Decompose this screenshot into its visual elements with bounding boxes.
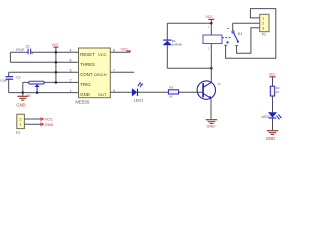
svg-text:VCC: VCC <box>269 73 277 77</box>
wire emitter down <box>210 99 212 120</box>
svg-text:LED1: LED1 <box>134 98 144 103</box>
wire r2 to led2 <box>272 96 274 112</box>
svg-text:+: + <box>32 52 34 56</box>
node junction vcc top <box>210 22 213 25</box>
op: IC U1 NE555 <box>75 48 110 105</box>
ground below LED2 <box>266 131 278 141</box>
svg-text:100uF: 100uF <box>16 48 25 52</box>
node junction vcc-cont <box>55 71 58 74</box>
capacitor C2 <box>0 72 20 92</box>
relay switch K1 <box>222 23 242 45</box>
svg-text:P1: P1 <box>262 33 266 37</box>
svg-text:C2: C2 <box>16 76 20 80</box>
power flag GND at P2 <box>41 122 54 127</box>
wire cont row (pin 5) <box>9 71 79 73</box>
svg-text:CONT: CONT <box>80 72 93 77</box>
svg-text:GND: GND <box>266 136 275 141</box>
svg-text:6: 6 <box>70 59 72 63</box>
resistor R3 <box>168 86 178 99</box>
node junction vcc-thres <box>55 61 58 64</box>
LED LED2 <box>262 112 282 119</box>
transistor Q1 <box>197 81 221 99</box>
svg-text:VCC: VCC <box>52 43 60 47</box>
svg-text:TRIG: TRIG <box>80 82 91 87</box>
connector P1 <box>260 14 269 36</box>
svg-text:GND: GND <box>45 122 54 127</box>
wire reset row (pin 4) <box>10 51 78 53</box>
node junction vcc-reset <box>55 51 58 54</box>
resistor R2 <box>270 86 280 96</box>
ground left <box>16 93 28 108</box>
LED LED1 <box>132 82 143 102</box>
svg-text:P2: P2 <box>16 131 20 135</box>
wire top loop <box>167 22 211 24</box>
diode D1 1N4148 <box>163 23 183 68</box>
svg-text:LED2: LED2 <box>262 115 270 119</box>
node junction wiper gnd <box>36 91 39 94</box>
svg-text:GND: GND <box>207 125 216 129</box>
power VCC right <box>269 73 277 87</box>
svg-text:1: 1 <box>70 89 72 93</box>
ground below Q1 <box>206 120 218 129</box>
wire thres row (pin 6) <box>10 61 78 63</box>
svg-text:OUT: OUT <box>98 92 107 97</box>
power VCC at pin 8 <box>121 47 131 52</box>
wire no contact loop <box>237 28 260 54</box>
svg-text:R3: R3 <box>169 86 173 90</box>
node junction pot-left gnd <box>22 91 25 94</box>
svg-text:1K: 1K <box>169 94 173 98</box>
pin 3 + out wire <box>110 91 203 93</box>
wire p2 pin2 <box>24 118 40 120</box>
wire trig row (pin 2) <box>23 81 79 83</box>
svg-text:T1: T1 <box>217 82 221 86</box>
svg-text:3: 3 <box>113 88 115 92</box>
svg-text:RESET: RESET <box>80 52 95 57</box>
capacitor C1 <box>16 44 34 56</box>
pin 8 + stub <box>110 51 130 53</box>
wire led2 to gnd <box>272 118 274 130</box>
connector P2 <box>16 114 25 135</box>
svg-text:GND: GND <box>80 92 90 97</box>
wire gnd row (pin 1) <box>9 92 79 94</box>
wire p2 pin1 <box>24 123 40 125</box>
svg-text:7: 7 <box>113 68 115 72</box>
svg-text:1: 1 <box>208 25 210 29</box>
svg-text:K1: K1 <box>238 32 243 36</box>
wire nc contact loop <box>226 9 276 59</box>
wire d1 bottom <box>167 67 211 69</box>
svg-text:VCC: VCC <box>206 15 214 19</box>
svg-text:2: 2 <box>70 79 72 83</box>
svg-text:1N4148: 1N4148 <box>172 43 182 47</box>
svg-text:8: 8 <box>113 49 115 53</box>
wire vcc drop left <box>55 47 57 82</box>
svg-text:C1: C1 <box>26 44 30 48</box>
pin 7 + stub <box>110 71 134 73</box>
node junction coil-collector <box>210 67 213 70</box>
svg-text:NE555: NE555 <box>75 100 89 105</box>
power flag VCC at P2 <box>41 117 53 122</box>
svg-text:4: 4 <box>70 49 72 53</box>
svg-text:VCC: VCC <box>98 52 107 57</box>
wire left bracket <box>9 52 11 62</box>
node junction vcc-trig <box>55 81 58 84</box>
power VCC top <box>206 15 215 23</box>
svg-text:1K: 1K <box>276 90 280 94</box>
svg-text:DISCH: DISCH <box>94 72 107 77</box>
svg-text:0.3uF: 0.3uF <box>0 78 7 82</box>
relay coil K1 <box>203 23 222 82</box>
svg-text:2: 2 <box>208 47 210 51</box>
svg-text:THRES: THRES <box>80 62 95 67</box>
potentiometer R1 <box>23 81 44 97</box>
power VCC left <box>52 43 60 47</box>
svg-text:5: 5 <box>70 69 72 73</box>
svg-text:GND: GND <box>16 103 25 108</box>
wire common to pin2 <box>233 22 260 24</box>
